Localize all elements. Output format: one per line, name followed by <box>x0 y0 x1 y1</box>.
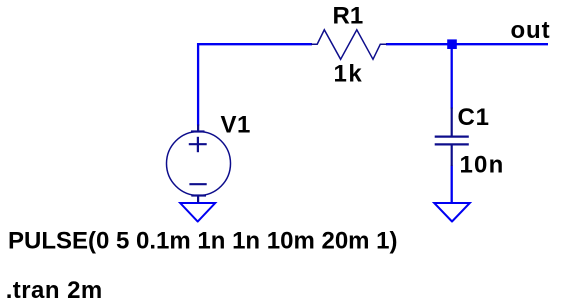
svg-text:1k: 1k <box>334 61 364 88</box>
svg-text:.tran 2m: .tran 2m <box>6 277 103 304</box>
svg-text:V1: V1 <box>221 111 251 138</box>
svg-text:PULSE(0 5 0.1m 1n 1n 10m 20m 1: PULSE(0 5 0.1m 1n 1n 10m 20m 1) <box>8 228 398 255</box>
svg-text:C1: C1 <box>458 104 490 131</box>
svg-text:R1: R1 <box>333 3 364 30</box>
svg-text:out: out <box>511 17 551 44</box>
svg-text:10n: 10n <box>460 152 505 179</box>
